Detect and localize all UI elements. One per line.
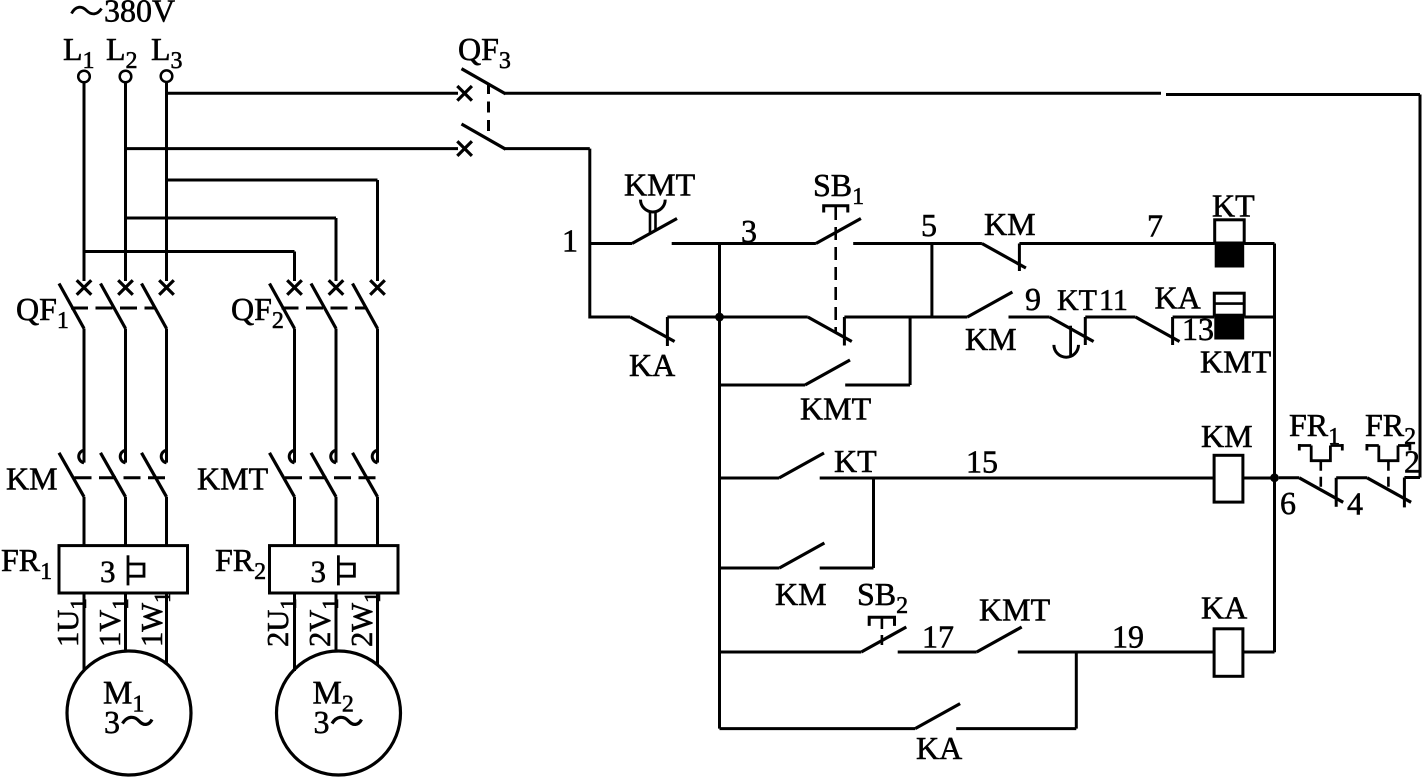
power label ~380V (72, 7, 102, 14)
svg-text:KM: KM (6, 461, 58, 497)
thermal relay FR1 heater box (59, 546, 188, 593)
svg-text:15: 15 (966, 444, 998, 480)
contactor KMT coil (with delay blocks) (1214, 293, 1244, 315)
relay KA coil (1214, 629, 1243, 677)
svg-text:KM: KM (984, 206, 1036, 242)
circuit breaker QF2 pole 3 (370, 280, 385, 295)
wire L3 down to QF1 pole3 (165, 82, 168, 281)
svg-text:11: 11 (1099, 284, 1128, 317)
wire SB1NC to KM NO contact (844, 316, 967, 319)
KMT self-lock tie (vertical) (909, 317, 912, 385)
contactor KM main contact pole 1 (79, 450, 84, 463)
svg-text:4: 4 (1347, 486, 1363, 522)
svg-text:17: 17 (922, 619, 954, 655)
wire right-hand bus down (1419, 95, 1422, 478)
svg-text:9: 9 (1025, 281, 1041, 317)
wire node4 segment (1336, 476, 1367, 479)
svg-text:2: 2 (1404, 444, 1420, 480)
terminal label 1V1 (93, 598, 133, 647)
wire L3 branch to QF2 pole3 (167, 179, 378, 182)
wire KM NO to node 9 (1009, 316, 1050, 319)
thermal contact FR2 NC (1367, 478, 1411, 503)
wire node1 to KMT cup contact (590, 242, 632, 245)
time-relay KT coil (delay device) (1215, 220, 1245, 243)
svg-text:KA: KA (629, 347, 675, 383)
circuit breaker QF2 pole 1 (287, 280, 302, 295)
QF3 lower pole (457, 141, 472, 156)
circuit breaker QF2 pole 2 (329, 280, 344, 295)
QF3 upper pole (457, 86, 472, 101)
left control rail (node 1) (588, 149, 591, 319)
wire L2 to QF3 lower pole (126, 147, 459, 150)
circuit breaker QF1 pole 3 (159, 280, 174, 295)
terminal label 1U1 (51, 598, 91, 647)
svg-text:KM: KM (775, 576, 827, 612)
svg-text:KMT: KMT (1200, 344, 1272, 380)
svg-text:7: 7 (1147, 208, 1163, 244)
wire 5-7 segment to KT coil (1019, 242, 1214, 245)
contactor KMT main contact pole 3 (372, 450, 377, 463)
wire 1-3 segment (672, 242, 816, 245)
wire junction to KMT self-lock (720, 384, 806, 387)
wire QF3 lower to control rail (505, 147, 590, 150)
wire FR1 to M1 lead U (83, 593, 86, 671)
wire L2 down to QF1 pole2 (124, 82, 127, 281)
wire junction to SB1 NC contact (720, 316, 808, 319)
svg-text:KA: KA (1201, 590, 1247, 626)
svg-text:3: 3 (741, 213, 757, 249)
wire FR2 to M2 lead U (293, 593, 296, 671)
wire FR2 to M2 lead W (376, 593, 379, 665)
wire rail to KM NO contact (row3b) (720, 567, 780, 570)
terminal label 1W1 (135, 591, 175, 647)
wire KT coil to right rail (1244, 242, 1274, 245)
thermal relay FR2 heater box (270, 546, 399, 593)
wire KM coil to node 6 (1243, 477, 1275, 480)
svg-text:3: 3 (100, 554, 116, 589)
wire L1 branch to QF2 pole1 (84, 250, 295, 253)
terminal label 2W1 (345, 591, 385, 647)
wire rail to SB2 contact (720, 651, 862, 654)
wire rail to KT NO contact (720, 477, 780, 480)
contactor KM coil (1214, 455, 1243, 502)
contact KT NC delayed-opening (row2) (1050, 317, 1094, 342)
svg-text:3: 3 (311, 554, 327, 589)
KM self-lock tie (vertical) (872, 478, 875, 568)
QF2 linkage (dashed) (282, 307, 368, 310)
svg-text:3: 3 (314, 704, 330, 740)
pushbutton SB1 NC contact (row2) (808, 317, 852, 342)
contact KMT (relay-operated NO) with release coil symbol (641, 200, 666, 212)
wire KM NO up-tie (820, 567, 874, 570)
motor M1 (67, 651, 191, 775)
QF1 linkage (dashed) (71, 307, 156, 310)
contact KM NO (row2) (967, 292, 1012, 317)
junction dot node 6 (1270, 473, 1279, 482)
contactor KM main contact pole 3 (161, 450, 166, 463)
circuit breaker QF1 pole 2 (118, 280, 133, 295)
wire KMT self-lock up to row2 (845, 384, 910, 387)
wire 3-5 segment (853, 242, 982, 245)
svg-text:6: 6 (1280, 485, 1296, 521)
svg-text:KM: KM (1201, 418, 1253, 454)
contactor KMT main contact pole 2 (331, 450, 336, 463)
contact KT NO delayed-closing (row3) (779, 453, 824, 478)
node 3 rail (vertical) (718, 244, 721, 729)
contact KMT NO (row4) (977, 627, 1022, 652)
svg-text:KT: KT (1057, 284, 1097, 317)
contact KA NO (row5) (915, 704, 960, 729)
svg-text:KT: KT (834, 443, 877, 479)
wire 11 segment (1085, 316, 1135, 319)
contact KMT NO self-lock (805, 360, 850, 385)
wire L1 down to QF1 pole1 (83, 82, 86, 281)
svg-text:1: 1 (562, 223, 578, 259)
svg-text:KA: KA (916, 730, 962, 766)
wire L3 to QF3 upper pole (167, 92, 459, 95)
wire KA NC to node 3 junction (667, 316, 719, 319)
wire 13 to KMT coil (1173, 316, 1215, 319)
thermal contact FR1 NC (1299, 478, 1343, 503)
wire rail to KA NO contact (row5) (720, 727, 916, 730)
svg-text:KMT: KMT (800, 391, 872, 427)
pushbutton SB1 NO contact (start) (816, 219, 861, 244)
circuit breaker QF1 pole 1 (77, 280, 92, 295)
svg-text:KMT: KMT (979, 592, 1051, 628)
KA bypass tie (vertical) (1075, 652, 1078, 729)
svg-text:KMT: KMT (624, 166, 696, 202)
svg-text:5: 5 (921, 207, 937, 243)
contactor KM main contact pole 2 (120, 450, 125, 463)
terminal label 2U1 (261, 598, 301, 647)
KMT linkage (dashed) (285, 476, 381, 479)
KM linkage (dashed) (75, 476, 171, 479)
wire KMT coil to right rail (1244, 316, 1274, 319)
motor M2 (277, 651, 401, 775)
junction dot at node 3 rail / row2 (715, 313, 724, 322)
wire L2 branch to QF2 pole2 (126, 217, 337, 220)
wire KMT NO to KA coil (node 19) (1018, 651, 1214, 654)
terminal label 2V1 (303, 598, 343, 647)
svg-text:3: 3 (104, 704, 120, 740)
wire KA NO to tie (956, 727, 1076, 730)
svg-text:KT: KT (1212, 188, 1255, 224)
svg-text:KM: KM (965, 321, 1017, 357)
wire FR2 to M2 lead V (335, 593, 338, 652)
contact KA NC (row2) (630, 317, 674, 342)
wire FR1 to M1 lead W (165, 593, 168, 665)
wire node1 to KA NC contact (590, 316, 631, 319)
wire SB2 to node 17 (898, 651, 977, 654)
contact KM NO (row3b) (779, 543, 824, 568)
node 5 tie to lower rung (930, 244, 933, 319)
wire FR1 to M1 lead V (124, 593, 127, 652)
svg-text:380V: 380V (104, 0, 175, 29)
wire KA coil to right rail (1243, 651, 1275, 654)
contact KM NC (row1) (982, 244, 1026, 269)
wire KT NO to KM coil (node 15) (820, 477, 1214, 480)
svg-text:KMT: KMT (197, 461, 269, 497)
right control rail (1273, 244, 1276, 653)
QF3 linkage (dashed) (487, 83, 490, 137)
wire QF3 upper to right (top bus) (505, 92, 1161, 95)
wire node6 to FR1 contact (1279, 476, 1299, 479)
contact KA NC (row2 right) (1136, 317, 1180, 342)
svg-text:19: 19 (1112, 619, 1144, 655)
contactor KMT main contact pole 1 (289, 450, 294, 463)
pushbutton SB2 NO contact (861, 627, 906, 652)
